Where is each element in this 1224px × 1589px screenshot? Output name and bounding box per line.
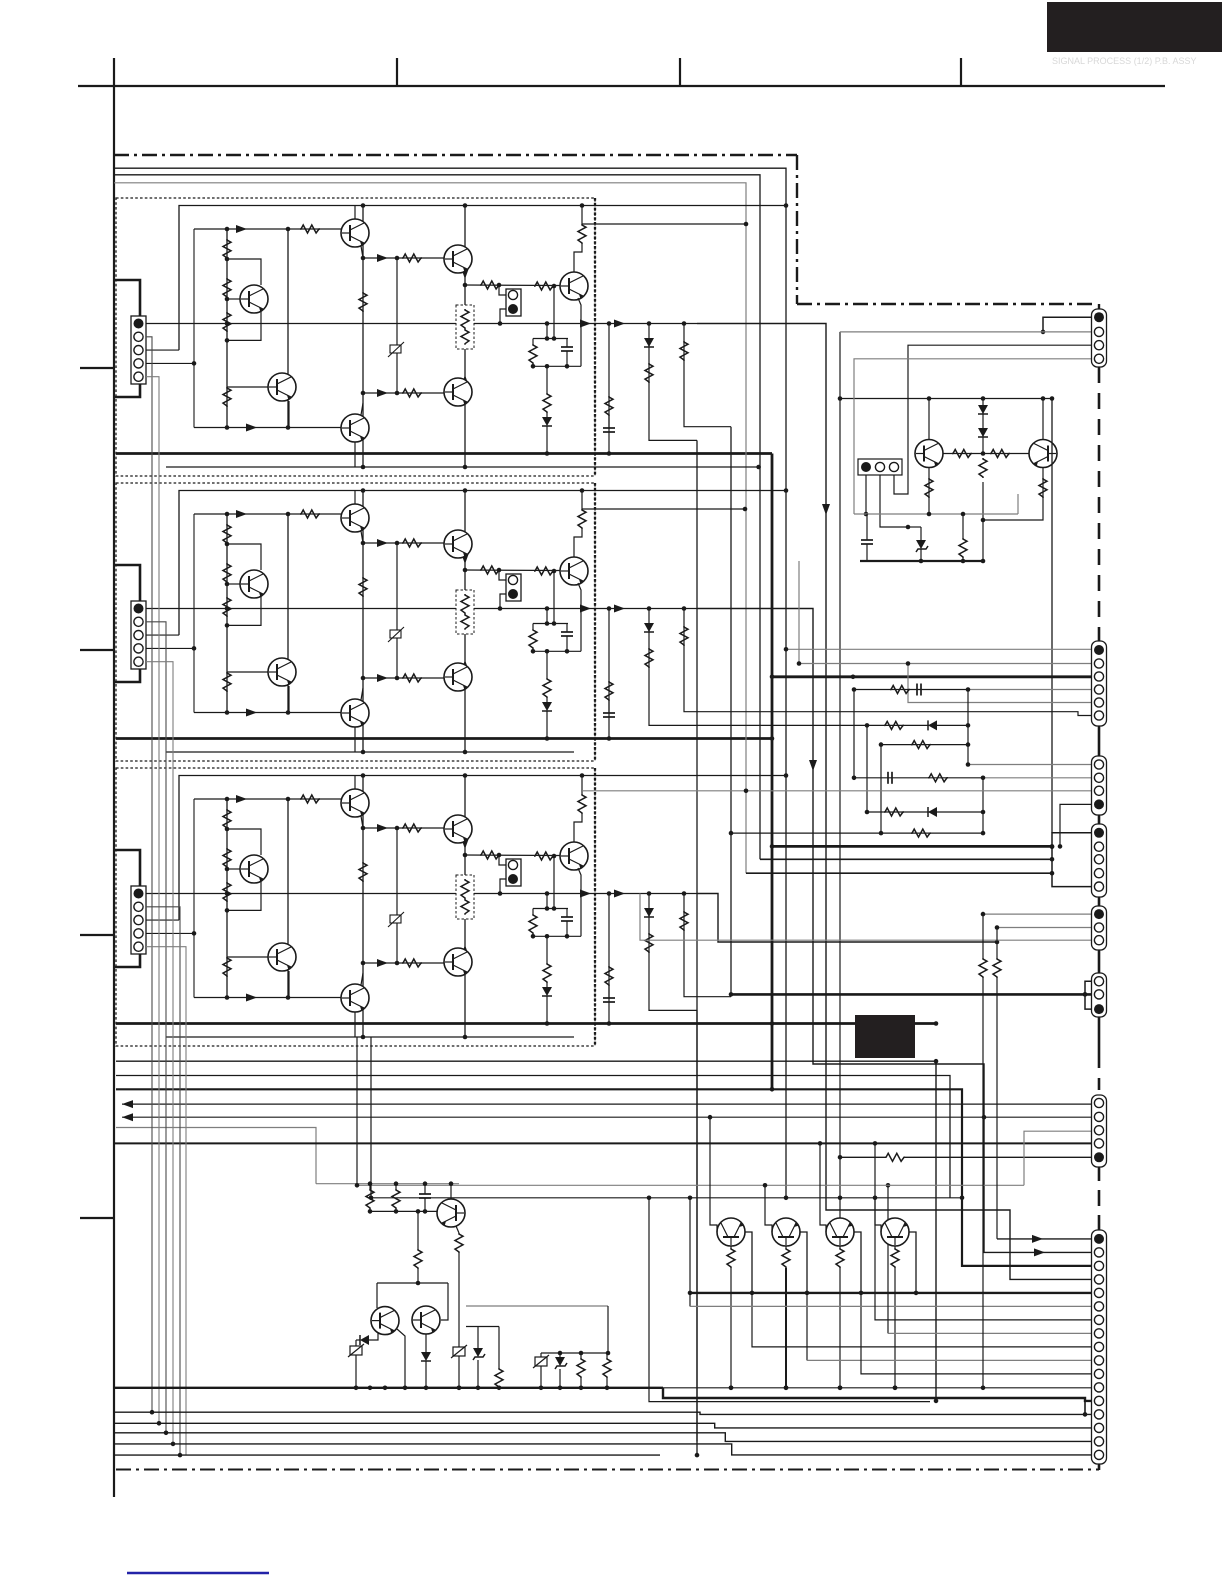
CN-D pin 3 <box>1094 855 1103 864</box>
mid vertical with resistor <box>417 1211 419 1249</box>
C1 pin1 feed <box>1043 317 1092 332</box>
left feed vertical b3 pin5 <box>146 947 186 1455</box>
CN-H pin 6 <box>1094 1302 1103 1311</box>
Q9 diode chain <box>369 1333 378 1340</box>
line to C8 pin7 <box>875 1198 1092 1320</box>
Q10 diode to bus <box>425 1334 427 1352</box>
bundle stub line <box>114 1454 660 1456</box>
line to C8 pin6 <box>689 1198 691 1307</box>
CN-A pin 4 <box>1094 354 1103 363</box>
bottom rail network: cap <box>866 514 868 540</box>
page border left rule <box>113 58 115 1497</box>
CN-H pin 4 <box>1094 1275 1103 1284</box>
CN-H pin 16 <box>1094 1437 1103 1446</box>
left tick mark 1 <box>80 367 114 369</box>
CN-B pin 1 <box>1094 645 1104 655</box>
C4 pin4 feed <box>746 872 1052 874</box>
driver pair base bracket <box>377 1282 448 1284</box>
board outline right edge segments <box>1098 304 1100 311</box>
transistor Q10 <box>412 1306 440 1334</box>
C6 bracket <box>1085 981 1092 1009</box>
CN-C pin 1 <box>1094 760 1103 769</box>
board outline dash-dot bottom <box>116 1469 1099 1471</box>
CN-C pin 2 <box>1094 773 1103 782</box>
block1 bottom rail extension <box>574 466 759 468</box>
T row common bus <box>690 1292 1092 1294</box>
bus junction dots <box>368 1386 373 1391</box>
bias resistor below stack <box>979 458 987 478</box>
left tick mark 3 <box>80 934 114 936</box>
C1 pin3 feed <box>894 345 1092 494</box>
CN-C pin 4 <box>1094 799 1104 809</box>
CN-B pin 3 <box>1094 672 1103 681</box>
cluster top gray rail <box>316 1183 459 1185</box>
gray elbow line into bottom cluster <box>116 1128 316 1184</box>
block2 output route to CN pin2 <box>697 609 1092 1253</box>
block1 inner top line extension <box>582 205 786 207</box>
CN-G pin 4 <box>1094 1139 1103 1148</box>
right riser x1052 <box>1051 399 1053 833</box>
line to C8 pin8 <box>887 1185 889 1333</box>
C6 thick feed line <box>731 993 1092 996</box>
ground bus thin extension to C8 pin12 <box>663 1387 1092 1389</box>
block2 collector line extension <box>582 508 745 510</box>
top tick mark 2 <box>396 58 398 86</box>
RC row5 <box>867 811 983 813</box>
four-output emitter returns to CN pins 9-12 <box>730 1268 732 1388</box>
top nest wire N3 <box>114 183 746 873</box>
base coupling resistors <box>943 453 1029 455</box>
board outline dash-dot right step <box>796 155 798 304</box>
Q9 right lead <box>397 1329 405 1388</box>
CN-B pin 4 <box>1094 685 1103 694</box>
CN-H pin 12 <box>1094 1383 1103 1392</box>
RC row4 <box>854 777 983 779</box>
amplifier channel block 1 <box>114 198 772 476</box>
block3 bus extension <box>772 1022 936 1025</box>
resistor branch <box>498 1327 500 1369</box>
amplifier channel block 3 <box>114 768 772 1046</box>
gray link <box>466 1305 608 1307</box>
top horizontal rule <box>78 85 1165 87</box>
RC row6 <box>731 832 983 834</box>
block2 chainC route to C2 pin6 <box>731 712 1092 716</box>
output transistor T2 <box>772 1218 800 1246</box>
CN-A pin 3 <box>1094 341 1103 350</box>
C4 pin3 feed <box>760 858 1052 860</box>
CN-H pin 11 <box>1094 1369 1103 1378</box>
CN-H pin 15 <box>1094 1423 1103 1432</box>
left tick mark 4 <box>80 1217 114 1219</box>
C3 pin1 feed <box>968 764 1092 766</box>
CN-G pin 2 <box>1094 1112 1103 1121</box>
CN-H pin 2 <box>1094 1248 1103 1257</box>
CN-G pin 1 <box>1094 1098 1103 1107</box>
thick vertical trunk <box>771 454 774 1090</box>
CN-H pin 3 <box>1094 1261 1103 1270</box>
CN-H pin 7 <box>1094 1315 1103 1324</box>
CN-F pin 3 <box>1094 1004 1104 1014</box>
connector CN-G <box>1092 1095 1107 1167</box>
CN-E pin 1 <box>1094 909 1104 919</box>
cluster feed verticals from block3 <box>356 1037 358 1185</box>
CN-C pin 3 <box>1094 786 1103 795</box>
C7 pin5 feed with resistor <box>840 1156 885 1158</box>
pin13-pin14 bracket <box>1084 1401 1086 1415</box>
CN-E pin 3 <box>1094 936 1103 945</box>
block1 chainC drop / C6 feed <box>730 427 732 995</box>
transistor Q8 <box>450 1184 452 1199</box>
block1 collector line extension <box>582 223 746 225</box>
RC row2 (fed by block2 chainB) <box>697 724 968 726</box>
C3 pin4 feed <box>1060 804 1092 846</box>
ground bus (thick) <box>114 1387 663 1389</box>
bundle to C8 pin14 <box>114 1412 1092 1414</box>
RC row1 <box>854 689 968 691</box>
long vertical from C1 pin2 <box>839 332 841 1198</box>
C5 pin3 feed <box>640 894 1092 941</box>
title block (blacked out) <box>1047 2 1222 52</box>
left feed vertical b3 pin2 <box>146 907 180 1455</box>
connector CN-C <box>1092 756 1107 815</box>
left feed vertical b2 pin2 <box>146 622 166 1433</box>
bundle to C8 pin16 <box>114 1433 1092 1442</box>
C7 pin3 feed <box>1024 1131 1092 1185</box>
CN-B pin 6 <box>1094 711 1103 720</box>
connector CN-D <box>1092 824 1107 897</box>
bottom rail network: resistor <box>962 514 964 538</box>
left feed vertical b2 pin5 <box>146 662 173 1444</box>
block1 output route to CN pin4 <box>697 324 1092 1280</box>
resistor drop A <box>982 914 984 958</box>
C2 pin1 feed <box>786 648 1092 650</box>
cluster base rail <box>370 1210 437 1212</box>
CN-H pin 1 <box>1094 1234 1104 1244</box>
thick line to C8 pin3 <box>116 1089 1092 1266</box>
C5 pin2 feed <box>997 927 1092 929</box>
CN-H pin 9 <box>1094 1342 1103 1351</box>
subcircuit bottom thick rail <box>860 560 983 562</box>
bias connector 3pin <box>858 459 902 475</box>
mid rail <box>854 513 1018 515</box>
bundle to C8 pin15 <box>114 1423 1092 1428</box>
CN-H pin 13 <box>1094 1396 1103 1405</box>
CN-G pin 3 <box>1094 1126 1103 1135</box>
CN-H pin 14 <box>1094 1410 1103 1419</box>
top nest wire N1 <box>114 168 786 1198</box>
top tick mark 3 <box>679 58 681 86</box>
connector CN-B <box>1092 641 1107 726</box>
connector CN-H <box>1092 1230 1107 1464</box>
bias diode stack <box>982 399 984 454</box>
top tick mark 4 <box>960 58 962 86</box>
subcircuit top rail <box>840 398 1052 400</box>
C3 pin3 feed <box>582 790 1092 792</box>
arrow line to C7 pin2 <box>122 1116 1092 1118</box>
top nest wire N2 <box>114 175 760 860</box>
blacked-out reference box <box>855 1015 915 1058</box>
connector CN-A <box>1092 309 1107 367</box>
subcircuit transistor QL <box>928 399 930 440</box>
output transistor T4 <box>881 1218 909 1246</box>
CN-H pin 17 <box>1094 1450 1103 1459</box>
transistor Q9 <box>371 1307 399 1335</box>
1197 line drop <box>649 1198 930 1402</box>
C1 pin4 feed <box>854 359 1092 514</box>
C1 pin2 feed long <box>840 331 1092 333</box>
CN-D pin 5 <box>1094 882 1103 891</box>
Q8 emitter chain <box>456 1226 459 1233</box>
left tick mark 2 <box>80 649 114 651</box>
arrow line to C7 pin1 <box>122 1103 1092 1105</box>
left feed vertical b1 pin5 <box>146 377 159 1424</box>
thick line to C7 pin4 <box>114 1142 1092 1144</box>
T row base feeds <box>710 1117 717 1232</box>
3pin wires <box>865 475 867 514</box>
board outline dash-dot top <box>114 154 797 156</box>
connector CN-E <box>1092 906 1107 950</box>
CN-H pin 10 <box>1094 1356 1103 1365</box>
subcircuit transistor QR <box>1042 399 1044 440</box>
bottom-left blue rule <box>127 1572 269 1575</box>
cluster resistor 2 <box>395 1184 397 1189</box>
C4 bracket <box>1052 833 1092 887</box>
quad symbol rail <box>541 1352 607 1354</box>
CN-A pin 2 <box>1094 327 1103 336</box>
thick feed to C2 pin3 <box>772 675 1092 678</box>
long horizontal mid-bottom <box>371 1197 962 1199</box>
bundle line 2 <box>116 1076 950 1198</box>
CN-D pin 1 <box>1094 828 1104 838</box>
C2 pin2 feed <box>799 663 1092 665</box>
zener branch <box>466 1326 499 1328</box>
RC verticals <box>853 690 855 778</box>
block3 output route to CN pin1 <box>697 894 997 943</box>
gray mid-bottom <box>357 1184 1024 1186</box>
bundle to C8 pin17 <box>114 1444 1092 1455</box>
cluster cap <box>424 1184 426 1194</box>
RC row3 <box>881 744 968 746</box>
C2 pin5 feed <box>908 664 1092 703</box>
CN-G pin 5 <box>1094 1152 1104 1162</box>
amplifier channel block 2 <box>114 483 772 761</box>
CN-D pin 2 <box>1094 842 1103 851</box>
trunk line to C8 pin5 <box>116 1061 936 1401</box>
output transistor T1 <box>717 1218 745 1246</box>
output transistor T3 <box>826 1218 854 1246</box>
CN-H pin 5 <box>1094 1288 1103 1297</box>
svg-text:SIGNAL PROCESS (1/2) P.B. ASSY: SIGNAL PROCESS (1/2) P.B. ASSY <box>1052 56 1197 66</box>
C5 pin1 feed <box>983 913 1092 915</box>
C1 pin3 riser dot <box>906 525 911 530</box>
cluster resistor 1 <box>369 1184 371 1189</box>
bottom rail network: zener <box>920 527 922 540</box>
connector CN-F <box>1092 973 1107 1017</box>
bus step to C8 pin13 <box>663 1388 1092 1401</box>
block1 chainB drop <box>696 440 698 1455</box>
CN-B pin 5 <box>1094 698 1103 707</box>
left feed vertical b1 pin2 <box>146 337 152 1412</box>
block2 inner top line extension <box>582 490 786 492</box>
block3 chainB drop <box>696 1010 698 1441</box>
CN-D pin 4 <box>1094 869 1103 878</box>
thick feed to C4 bracket <box>772 845 1052 848</box>
CN-B pin 2 <box>1094 659 1103 668</box>
CN-A pin 1 <box>1094 312 1104 322</box>
resistor drop B <box>996 928 998 959</box>
CN-E pin 2 <box>1094 923 1103 932</box>
block3 inner top line extension <box>582 775 786 777</box>
CN-F pin 2 <box>1094 990 1103 999</box>
CN-F pin 1 <box>1094 977 1103 986</box>
CN-H pin 8 <box>1094 1329 1103 1338</box>
